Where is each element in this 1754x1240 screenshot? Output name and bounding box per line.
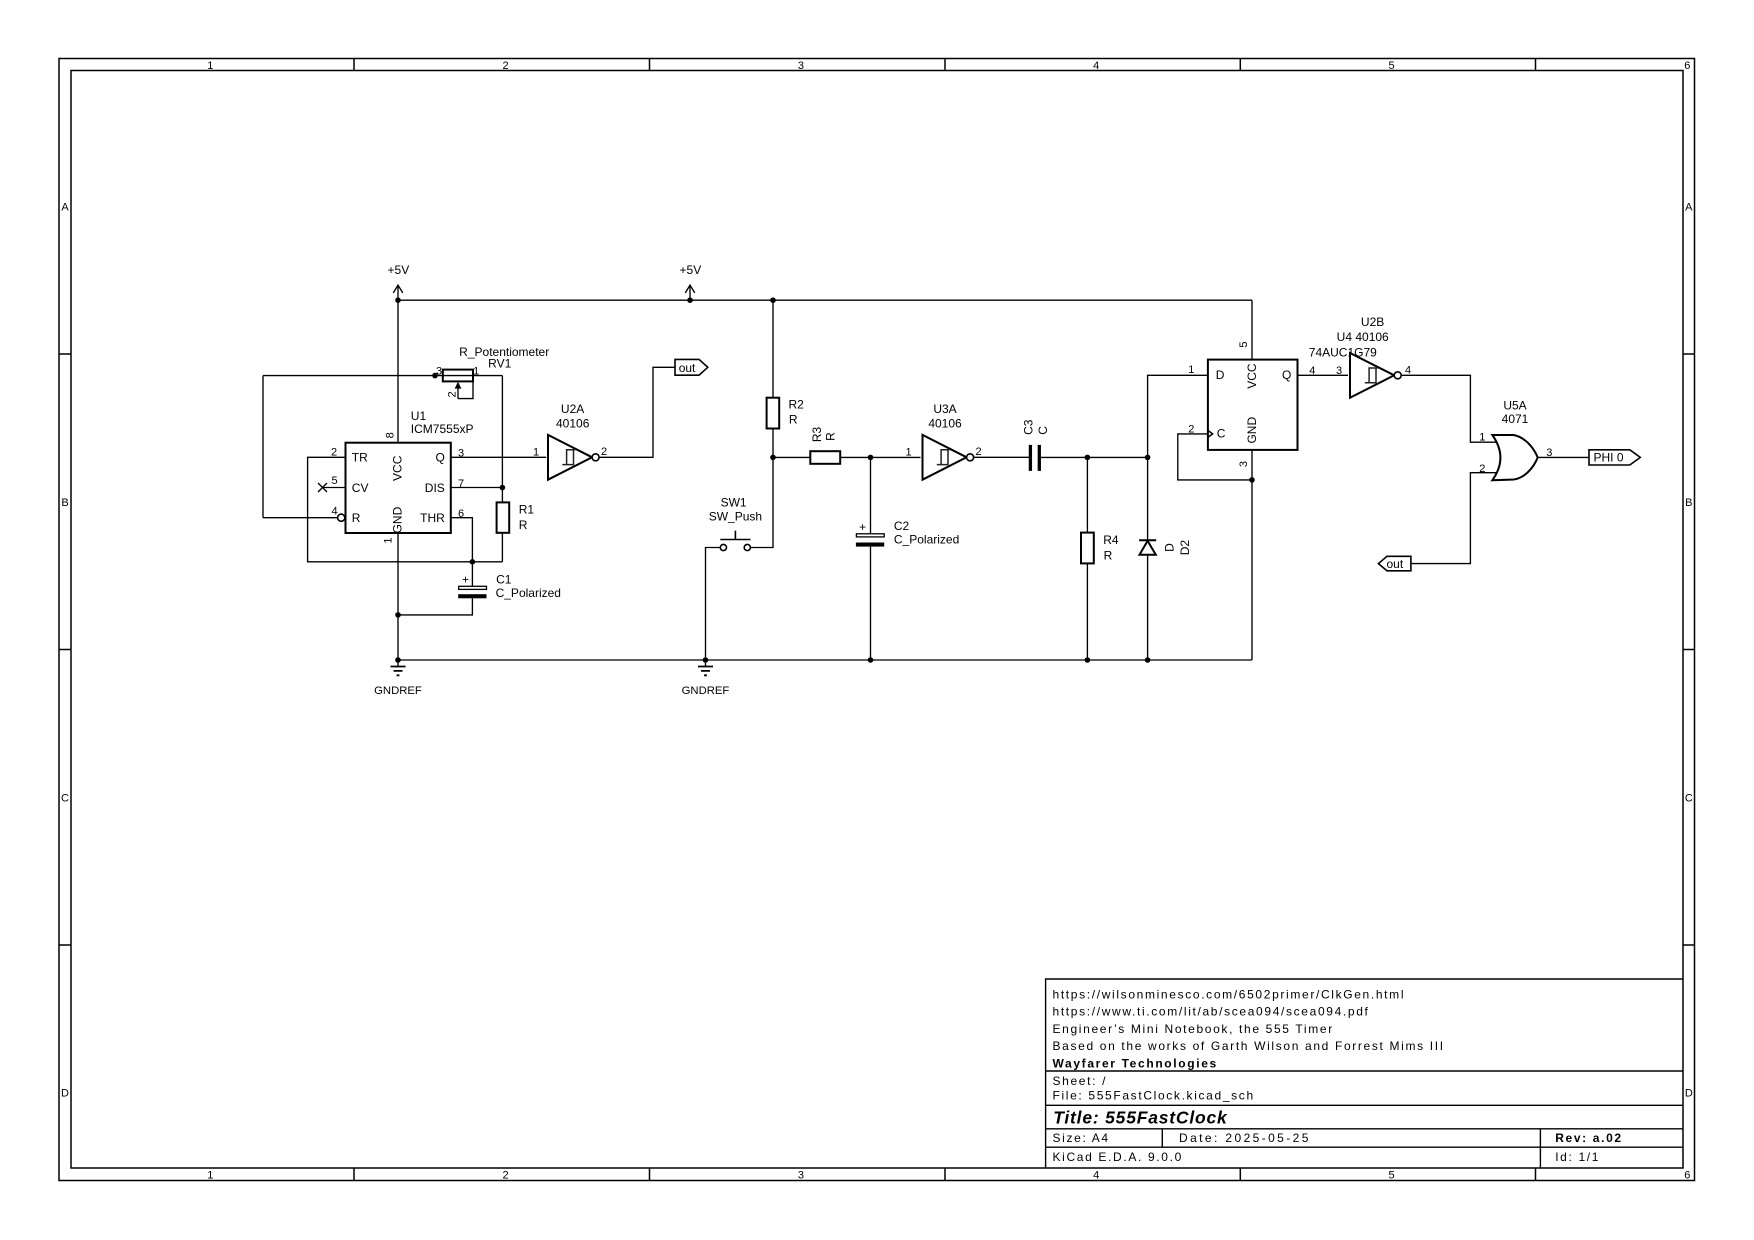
svg-text:RV1: RV1: [488, 356, 511, 370]
wire U4 VCC drop: [1251, 300, 1253, 359]
junction U1 DIS node: [500, 485, 506, 491]
C1 top plate: [459, 586, 487, 589]
inverter U3A input wire: [871, 456, 921, 458]
wire U2B output to U5A input 1: [1401, 375, 1498, 442]
svg-text:4071: 4071: [1502, 412, 1529, 426]
svg-text:5: 5: [1388, 60, 1394, 72]
junction THR/TR/C1 node: [470, 559, 476, 565]
junction C1 to GND wire: [395, 612, 401, 618]
wire D2 node up to U4 D pin: [1148, 375, 1208, 457]
border column ticks top: [354, 59, 1536, 71]
svg-text:4: 4: [1093, 1169, 1099, 1181]
svg-text:CV: CV: [352, 481, 369, 495]
wire node to D2: [1087, 456, 1147, 458]
svg-text:2: 2: [975, 446, 981, 458]
global label out 1: [675, 359, 708, 375]
svg-text:DIS: DIS: [425, 481, 445, 495]
resistor R2 bottom lead: [772, 429, 774, 458]
D2 triangle: [1140, 541, 1156, 555]
border column labels bottom: [207, 1169, 1690, 1181]
svg-text:R2: R2: [789, 397, 805, 411]
svg-text:Date: 2025-05-25: Date: 2025-05-25: [1179, 1131, 1311, 1145]
svg-text:A: A: [61, 202, 69, 214]
U4 clock triangle: [1208, 430, 1213, 437]
svg-text:4: 4: [1309, 365, 1315, 377]
inverter U3A triangle: [923, 435, 967, 480]
junction R2 bottom node: [770, 455, 776, 461]
svg-text:C: C: [1217, 427, 1226, 441]
svg-text:C2: C2: [894, 519, 910, 533]
power +5V symbol PWR02: [680, 263, 702, 300]
svg-text:40106: 40106: [556, 416, 590, 430]
U1 pin 6 THR wire: [451, 518, 473, 562]
C2 bottom lead: [870, 547, 872, 660]
svg-text:2: 2: [1479, 463, 1485, 475]
junction C3/R4 node: [1085, 455, 1091, 461]
junction SW1 at rail: [703, 657, 709, 663]
svg-text:C_Polarized: C_Polarized: [496, 586, 561, 600]
svg-text:D: D: [1216, 368, 1225, 382]
svg-text:C: C: [61, 792, 69, 804]
svg-text:R: R: [1104, 548, 1113, 562]
svg-text:8: 8: [385, 432, 397, 438]
U3A schmitt glyph: [937, 450, 950, 465]
junction R4 at rail: [1085, 657, 1091, 663]
svg-text:2: 2: [331, 446, 337, 458]
U3A output inversion circle: [967, 454, 974, 461]
svg-text:2: 2: [503, 1169, 509, 1181]
svg-text:6: 6: [458, 508, 464, 520]
svg-text:KiCad E.D.A. 9.0.0: KiCad E.D.A. 9.0.0: [1053, 1150, 1183, 1164]
global label PHI 0: [1589, 450, 1640, 465]
svg-text:https://wilsonminesco.com/6502: https://wilsonminesco.com/6502primer/Clk…: [1053, 987, 1406, 1001]
svg-text:3: 3: [1238, 461, 1250, 467]
svg-text:THR: THR: [420, 511, 445, 525]
potentiometer RV1 wire through body to pin 1 corner: [435, 375, 502, 377]
svg-text:6: 6: [1684, 1169, 1690, 1181]
svg-text:2: 2: [601, 446, 607, 458]
U4 pin 2 C wire loop: [1178, 434, 1252, 480]
RV1 wiper pin 2 stub: [457, 388, 459, 399]
svg-text:Q: Q: [435, 451, 444, 465]
junction +5V PWR02: [687, 297, 693, 303]
svg-text:Based on the works of Garth Wi: Based on the works of Garth Wilson and F…: [1053, 1039, 1445, 1053]
junction +5V U1: [395, 297, 401, 303]
svg-text:R3: R3: [810, 427, 824, 443]
svg-text:D: D: [1163, 543, 1177, 552]
svg-text:C: C: [1036, 426, 1050, 435]
svg-text:out: out: [679, 361, 696, 375]
svg-text:R: R: [789, 412, 798, 426]
RV1 pin 1 corner wire down to DIS node: [501, 376, 503, 488]
wire U5A input 2 to out flag: [1411, 473, 1498, 564]
or-gate U5A body: [1492, 435, 1537, 480]
resistor R2 body: [767, 398, 780, 429]
svg-text:SW_Push: SW_Push: [709, 509, 762, 523]
svg-text:C3: C3: [1021, 419, 1035, 435]
ic U1 ICM7555xP body: [346, 443, 451, 533]
wire U2A output to out flag: [599, 367, 675, 457]
SW1 left wire to ground: [706, 548, 721, 661]
svg-text:C: C: [1685, 792, 1693, 804]
svg-text:R1: R1: [519, 503, 535, 517]
RV1 wiper arrow: [455, 382, 462, 389]
D2 bottom lead: [1147, 555, 1149, 660]
svg-text:3: 3: [458, 448, 464, 460]
svg-text:File: 555FastClock.kicad_sch: File: 555FastClock.kicad_sch: [1053, 1089, 1255, 1103]
svg-text:1: 1: [383, 537, 395, 543]
wire ground rail: [398, 659, 1252, 661]
junction U1 GND at rail: [395, 657, 401, 663]
svg-text:3: 3: [436, 366, 442, 378]
svg-text:Wayfarer Technologies: Wayfarer Technologies: [1053, 1057, 1218, 1071]
svg-text:5: 5: [1238, 341, 1250, 347]
svg-text:U3A: U3A: [933, 402, 956, 416]
resistor R4 bottom lead: [1086, 563, 1088, 660]
svg-text:C_Polarized: C_Polarized: [894, 532, 959, 546]
wire +5V top rail: [398, 299, 1252, 301]
svg-text:Q: Q: [1282, 368, 1291, 382]
resistor R3 right lead: [840, 456, 870, 458]
junction U4 C loop at GND wire: [1249, 477, 1255, 483]
capacitor C3 left plate: [1029, 445, 1032, 471]
svg-text:R4: R4: [1103, 533, 1119, 547]
svg-text:+5V: +5V: [680, 263, 702, 277]
U2B schmitt glyph: [1365, 368, 1378, 383]
svg-text:out: out: [1387, 557, 1404, 571]
svg-text:C1: C1: [496, 572, 512, 586]
svg-text:+: +: [462, 573, 469, 587]
flip-flop U4 body: [1208, 360, 1298, 450]
resistor R1 top lead: [501, 488, 503, 503]
svg-text:SW1: SW1: [721, 496, 747, 510]
U1 pin 2 TR wire to THR node: [308, 457, 503, 562]
diode D2 top lead: [1147, 457, 1149, 540]
svg-text:4: 4: [1093, 60, 1099, 72]
svg-text:PHI 0: PHI 0: [1594, 450, 1624, 464]
junction D2 at rail: [1145, 657, 1151, 663]
junction C2 at rail: [868, 657, 874, 663]
junction D2 top node: [1145, 455, 1151, 461]
C1 bottom lead: [398, 598, 472, 615]
border column labels top: [207, 60, 1690, 72]
svg-text:Id: 1/1: Id: 1/1: [1555, 1150, 1600, 1164]
svg-text:https://www.ti.com/lit/ab/scea: https://www.ti.com/lit/ab/scea094/scea09…: [1053, 1005, 1370, 1019]
svg-text:B: B: [1685, 497, 1692, 509]
U2A output inversion circle: [592, 454, 599, 461]
U1 pin 4 R stub: [263, 517, 338, 519]
svg-text:Size: A4: Size: A4: [1053, 1131, 1110, 1145]
svg-text:1: 1: [1479, 432, 1485, 444]
svg-text:3: 3: [1336, 365, 1342, 377]
ground GNDREF 1: [374, 660, 422, 697]
svg-text:2: 2: [503, 60, 509, 72]
svg-text:GND: GND: [1245, 417, 1259, 444]
svg-text:2: 2: [1188, 424, 1194, 436]
wire R feedback vertical: [262, 376, 264, 518]
svg-text:U1: U1: [411, 409, 427, 423]
svg-text:GNDREF: GNDREF: [374, 685, 422, 697]
global label out 2: [1378, 556, 1411, 571]
potentiometer RV1 body: [443, 370, 473, 382]
svg-text:1: 1: [207, 1169, 213, 1181]
svg-text:Sheet: /: Sheet: /: [1053, 1074, 1108, 1088]
svg-text:A: A: [1685, 202, 1693, 214]
U1 pin 5 CV stub: [323, 487, 346, 489]
wire C3 to node: [1039, 456, 1087, 458]
wire U5A output to PHI 0: [1538, 456, 1589, 458]
D2 cathode bar: [1139, 539, 1156, 541]
svg-text:R: R: [352, 511, 361, 525]
svg-text:U5A: U5A: [1503, 398, 1526, 412]
capacitor C2 top lead: [870, 457, 872, 533]
svg-text:Engineer’s Mini Notebook, the: Engineer’s Mini Notebook, the 555 Timer: [1053, 1022, 1334, 1036]
wire U1 VCC pin 8: [397, 300, 399, 443]
svg-text:7: 7: [458, 478, 464, 490]
C2 bottom plate: [856, 543, 884, 547]
svg-text:R: R: [824, 432, 838, 441]
C2 top plate: [856, 534, 884, 537]
junction R3/C2/U3A node: [868, 455, 874, 461]
svg-text:3: 3: [798, 60, 804, 72]
resistor R4 body: [1081, 533, 1094, 564]
svg-text:6: 6: [1684, 60, 1690, 72]
U1 pin 1 GND wire: [397, 533, 399, 660]
U2B output inversion circle: [1394, 372, 1401, 379]
svg-text:74AUC1G79: 74AUC1G79: [1309, 346, 1377, 360]
svg-text:5: 5: [1388, 1169, 1394, 1181]
svg-text:4: 4: [331, 505, 337, 517]
resistor R4 top lead: [1086, 457, 1088, 532]
svg-text:U4 40106: U4 40106: [1337, 330, 1389, 344]
border row labels left: [61, 202, 69, 1100]
svg-text:VCC: VCC: [391, 455, 405, 481]
svg-text:1: 1: [1188, 364, 1194, 376]
svg-text:U2B: U2B: [1361, 315, 1384, 329]
svg-text:VCC: VCC: [1245, 363, 1259, 389]
svg-text:Rev: a.02: Rev: a.02: [1555, 1131, 1623, 1145]
svg-text:1: 1: [905, 446, 911, 458]
resistor R1 body: [497, 502, 510, 532]
svg-text:Title: 555FastClock: Title: 555FastClock: [1053, 1108, 1228, 1128]
SW1 right contact circle: [744, 544, 750, 550]
border column ticks bottom: [354, 1168, 1536, 1181]
svg-text:TR: TR: [352, 451, 368, 465]
resistor R2 top lead: [772, 300, 774, 398]
svg-text:40106: 40106: [928, 416, 962, 430]
U4 pin 3 GND wire: [1251, 450, 1253, 660]
svg-text:+5V: +5V: [388, 263, 410, 277]
inverter U2A triangle: [548, 435, 592, 480]
resistor R1 bottom lead: [501, 533, 503, 562]
border row labels right: [1685, 202, 1693, 1100]
svg-text:ICM7555xP: ICM7555xP: [411, 422, 474, 436]
wire node to R3: [773, 456, 810, 458]
capacitor C1 top lead: [471, 562, 473, 587]
no-connect X on CV: [318, 483, 327, 492]
resistor R3 body: [810, 451, 840, 464]
svg-text:U2A: U2A: [561, 402, 584, 416]
svg-text:D2: D2: [1178, 540, 1192, 556]
svg-text:3: 3: [798, 1169, 804, 1181]
switch SW1 wire from node: [750, 457, 773, 547]
junction RV1 pin 3: [432, 373, 438, 379]
capacitor C3 right plate: [1038, 445, 1041, 471]
svg-text:+: +: [859, 520, 866, 534]
svg-text:1: 1: [533, 446, 539, 458]
svg-text:1: 1: [473, 366, 479, 378]
ground GNDREF 2: [682, 660, 730, 697]
svg-text:D: D: [1685, 1088, 1693, 1100]
wire R feedback horizontal to RV1 pin 3: [263, 375, 435, 377]
svg-text:R: R: [519, 518, 528, 532]
U2A schmitt glyph: [562, 450, 575, 465]
U1 pin 7 DIS wire: [451, 487, 503, 489]
border row ticks right: [1683, 354, 1695, 945]
U1 pin 4 R inversion circle: [338, 514, 345, 521]
inverter U2B triangle: [1350, 353, 1394, 398]
SW1 actuator stem: [734, 531, 736, 540]
svg-text:GNDREF: GNDREF: [682, 685, 730, 697]
RV1 pin 2 to pin 1 wire: [458, 381, 473, 398]
U4 pin 4 Q wire to U2B: [1298, 374, 1349, 376]
power +5V symbol PWR01: [388, 263, 410, 300]
svg-text:5: 5: [331, 475, 337, 487]
U1 pin 3 Q wire: [451, 456, 546, 458]
wire U3A output to C3: [974, 456, 1031, 458]
svg-text:D: D: [61, 1088, 69, 1100]
svg-text:1: 1: [207, 60, 213, 72]
junction +5V R2 branch: [770, 297, 776, 303]
svg-text:2: 2: [447, 391, 459, 397]
svg-text:B: B: [61, 497, 68, 509]
title block outline: [1046, 979, 1683, 1168]
SW1 actuator bar: [720, 539, 750, 541]
border row ticks left: [59, 354, 71, 945]
SW1 left contact circle: [720, 544, 726, 550]
C1 bottom plate: [458, 594, 486, 598]
svg-text:GND: GND: [391, 506, 405, 533]
